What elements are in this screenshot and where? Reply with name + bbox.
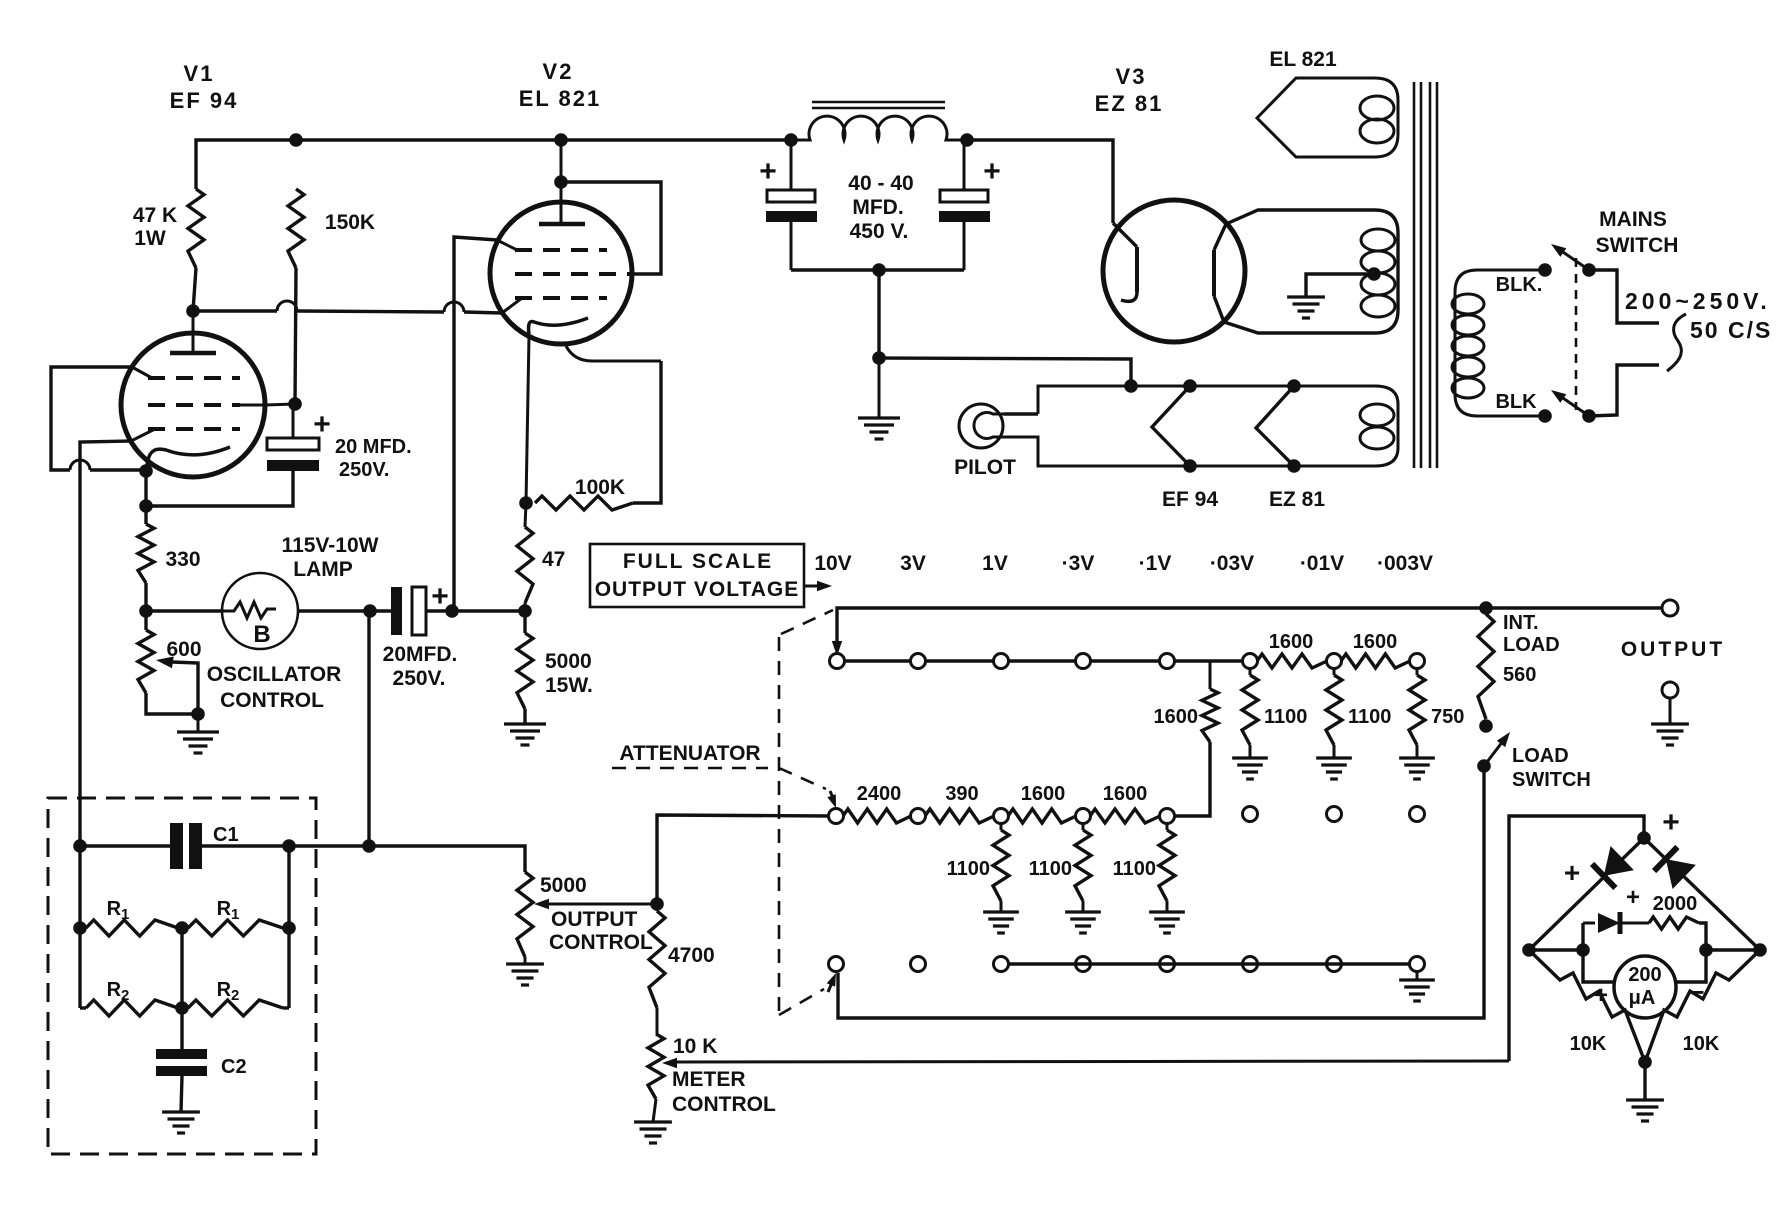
wire lamp to coupling cap (298, 609, 392, 612)
label - meter (1689, 977, 1704, 1007)
switch contact deck3-7 (1327, 957, 1342, 972)
node choke right junction (960, 133, 974, 147)
resistor 750 shunt (1409, 668, 1425, 758)
mains switch bottom arm (1551, 390, 1589, 416)
capacitor C1 (170, 823, 202, 869)
pilot lamp (959, 404, 1004, 448)
node choke left junction (784, 133, 798, 147)
resistor 1100 lower a (993, 823, 1009, 912)
switch contact deck3-3 (994, 957, 1009, 972)
resistor 1600 vertical (1174, 661, 1218, 816)
label OUTPUT oc (551, 908, 638, 931)
svg-text:10K: 10K (1683, 1033, 1720, 1055)
wire coupling to wien (367, 611, 370, 846)
resistor 390 (925, 809, 994, 823)
label CONTROL oc (549, 931, 653, 954)
resistor R2 left (80, 1000, 182, 1016)
resistor 4700 (649, 904, 665, 1034)
ground 1100 lower b (1065, 912, 1101, 933)
resistor 10K bridge right (1645, 950, 1760, 1062)
wire cathode to bypass cap (146, 471, 293, 506)
resistor 10K meter control (648, 1034, 664, 1122)
label EZ81 heater (1269, 488, 1325, 511)
switch contact deck2-2 (911, 809, 926, 824)
terminal OUTPUT (1662, 600, 1678, 616)
wire C1 to output control (289, 846, 525, 872)
V2 grid3 row (497, 240, 607, 250)
ground 5000 output control (506, 964, 544, 985)
svg-text:330: 330 (165, 548, 200, 571)
wire screen stub (265, 404, 295, 405)
wire bridge bottom to ground (1643, 1062, 1646, 1100)
label + bridge left (1564, 857, 1580, 888)
label PILOT (954, 456, 1016, 479)
node EF94 heater top (1183, 379, 1197, 393)
ground HT CT (1287, 297, 1325, 318)
wire attenuator top bus (837, 608, 1662, 648)
label + bridge top (1662, 806, 1680, 839)
label 1W (134, 227, 166, 250)
bridge edge top-right (1644, 838, 1760, 950)
svg-text:CONTROL: CONTROL (672, 1093, 776, 1116)
svg-text:1100: 1100 (1348, 706, 1391, 728)
label + cap right (983, 155, 1001, 188)
svg-text:450 V.: 450 V. (850, 220, 909, 243)
svg-text:250V.: 250V. (393, 667, 446, 690)
label 1100 lower c (1113, 858, 1156, 880)
wire bridge mid right (1706, 948, 1760, 951)
svg-text:INT.: INT. (1503, 612, 1539, 634)
tube V1 EF94 envelope (121, 333, 265, 477)
label V3 (1116, 64, 1147, 89)
svg-text:560: 560 (1503, 664, 1536, 686)
label 330 (165, 548, 200, 571)
wire 330 to lamp node (144, 583, 147, 611)
resistor 2400 (843, 809, 911, 823)
label BLK bottom (1495, 391, 1537, 413)
switch contact deck1-4 (1076, 654, 1091, 669)
label 1600 mid a (1021, 783, 1066, 805)
label 5000 oc (540, 874, 587, 897)
node inner right (1699, 943, 1713, 957)
label EF 94 (170, 88, 239, 113)
node cathode-bypass junction (139, 499, 153, 513)
label 115V-10W (282, 534, 379, 557)
node mains switch bottom left (1538, 409, 1552, 423)
svg-text:+: + (1662, 806, 1680, 839)
label 1600 top a (1269, 631, 1314, 653)
svg-text:+: + (983, 155, 1001, 188)
ground 1100 shunt b (1316, 758, 1352, 779)
svg-text:150K: 150K (325, 211, 375, 234)
resistor 1100 lower b (1075, 823, 1091, 912)
label 600 (166, 638, 201, 661)
V3 left diode (1113, 223, 1137, 301)
label + meter (1594, 982, 1608, 1009)
switch contact deck1-8 (1410, 654, 1425, 669)
label CONTROL mc (672, 1093, 776, 1116)
deck1 wiper arrow (832, 641, 842, 656)
wire deck1 bus (837, 659, 1243, 662)
resistor 10K bridge left (1529, 950, 1645, 1062)
node heater bus gnd tap (1124, 379, 1138, 393)
ground C2 (162, 1112, 200, 1133)
wire deck3 bus (1008, 962, 1410, 965)
capacitor 40MFD left (766, 140, 817, 270)
label V1 (184, 61, 215, 86)
svg-text:+: + (313, 408, 331, 441)
node C1 left (73, 839, 87, 853)
svg-text:EF 94: EF 94 (1162, 488, 1218, 511)
label SWITCH sw (1512, 769, 1591, 791)
svg-text:B: B (253, 621, 270, 648)
wire V2 g3 long vertical (454, 237, 497, 611)
transformer core (1414, 82, 1437, 468)
svg-text:EZ 81: EZ 81 (1269, 488, 1325, 511)
label .003V (1377, 552, 1433, 575)
EZ81 heater chevron (1256, 386, 1294, 466)
label R1 left (107, 898, 130, 923)
label BLK top (1496, 274, 1543, 296)
svg-text:5000: 5000 (540, 874, 587, 897)
node R1 right (282, 921, 296, 935)
winding heater 6.3V (1004, 386, 1398, 466)
label EL 821 (519, 86, 602, 111)
wire R2 to C2 (180, 1008, 183, 1049)
svg-text:μA: μA (1629, 987, 1656, 1009)
resistor 2000 (1649, 917, 1699, 929)
switch contact deck1-6 (1243, 654, 1258, 669)
svg-text:2000: 2000 (1653, 893, 1698, 915)
resistor 150K (288, 189, 304, 268)
node bridge top (1637, 831, 1651, 845)
node int-load top (1479, 601, 1493, 615)
label 40-40 (848, 172, 913, 195)
label 150K (325, 211, 375, 234)
label + bypass (313, 408, 331, 441)
resistor 1100 shunt b (1326, 668, 1342, 758)
resistor 1100 lower c (1159, 823, 1175, 912)
wire mains neutral (1589, 365, 1659, 416)
label V2 (543, 59, 574, 84)
winding HT secondary (1224, 210, 1398, 333)
V1 grid3 row (132, 367, 240, 378)
resistor 1600 mid b (1090, 809, 1160, 823)
wire caps bottom (791, 268, 964, 271)
resistor 47 (517, 527, 533, 603)
switch contact deck2-1 (829, 809, 844, 824)
node screen junction (288, 397, 302, 411)
svg-text:20MFD.: 20MFD. (383, 643, 458, 666)
switch contact deck3-1 (829, 957, 844, 972)
svg-text:OUTPUT: OUTPUT (1621, 638, 1725, 661)
node inner left (1576, 943, 1590, 957)
svg-text:1W: 1W (134, 227, 166, 250)
winding EL821 heater (1257, 78, 1398, 157)
wire CT down (877, 270, 880, 358)
wire HT CT to ground (1306, 274, 1374, 297)
svg-text:METER: METER (672, 1068, 746, 1091)
label B (253, 621, 270, 648)
svg-text:·1V: ·1V (1139, 552, 1172, 575)
svg-text:OUTPUT: OUTPUT (551, 908, 638, 931)
capacitor 20MFD 250V coupling (391, 587, 426, 635)
svg-text:C2: C2 (221, 1056, 247, 1078)
resistor 47K 1W (188, 189, 204, 268)
svg-text:1100: 1100 (1113, 858, 1156, 880)
switch contact deck1-7 (1327, 654, 1342, 669)
wire R1-R2 mid leg (180, 928, 183, 1008)
mains switch gang dashed link (1575, 258, 1578, 410)
switch contact deck2-4 (1076, 809, 1091, 824)
node 47-5000 junction (518, 604, 532, 618)
switch contact deck1-1 (830, 654, 845, 669)
svg-text:1600: 1600 (1103, 783, 1148, 805)
switch contact deck3-2 (911, 957, 926, 972)
node mains switch bottom right (1582, 409, 1596, 423)
switch contact deck3-6 (1243, 957, 1258, 972)
wire 47 bottom (524, 603, 527, 611)
V1 cathode (146, 447, 230, 470)
label .1V (1139, 552, 1172, 575)
node V1 plate junction (186, 304, 200, 318)
node 600 bottom junction (191, 707, 205, 721)
label R2 left (107, 979, 130, 1004)
ground oscillator control (177, 714, 219, 753)
node CT junction (872, 351, 886, 365)
label 1100 lower a (947, 858, 990, 880)
label + 2000 (1626, 884, 1640, 911)
V2 cathode (529, 318, 588, 334)
full scale arrow (804, 581, 832, 591)
label EL 821 winding (1269, 48, 1337, 71)
resistor 1600 mid a (1008, 809, 1076, 823)
resistor 330 (138, 524, 154, 583)
resistor 600 oscillator control (138, 611, 198, 714)
wire wien left leg (78, 846, 81, 928)
svg-text:390: 390 (945, 783, 978, 805)
label 10K bridge left (1570, 1033, 1607, 1055)
label 1V (982, 552, 1008, 575)
svg-text:+: + (1564, 857, 1580, 888)
label .01V (1300, 552, 1344, 575)
tube V3 EZ81 envelope (1103, 200, 1245, 342)
V2 grid2 row (515, 272, 630, 276)
label CONTROL (220, 689, 324, 712)
ground bridge (1626, 1100, 1664, 1121)
node bridge left (1522, 943, 1536, 957)
resistor 100K (535, 496, 633, 510)
svg-text:CONTROL: CONTROL (549, 931, 653, 954)
label OUTPUT VOLTAGE (595, 578, 800, 601)
choke core lines (812, 102, 945, 108)
label 47K (133, 204, 177, 227)
lamp B 115V-10W envelope (222, 573, 298, 649)
label 200-250V (1625, 288, 1771, 314)
svg-text:1100: 1100 (1029, 858, 1072, 880)
label 1600 top b (1353, 631, 1398, 653)
svg-text:ATTENUATOR: ATTENUATOR (619, 742, 760, 765)
ground CT (858, 358, 900, 439)
wire bridge mid left (1529, 948, 1583, 951)
switch contact deck2-3 (994, 809, 1009, 824)
attenuator gang dashed vertical (778, 637, 781, 1015)
svg-text:+: + (1626, 884, 1640, 911)
node EZ81 heater bottom (1287, 459, 1301, 473)
svg-text:V3: V3 (1116, 64, 1147, 89)
switch contact deck2-5 (1160, 809, 1175, 824)
svg-text:BLK.: BLK. (1496, 274, 1543, 296)
label FULL SCALE (623, 550, 773, 573)
node 4700 top (650, 897, 664, 911)
ground 750 shunt (1399, 758, 1435, 779)
wire 150K bottom (295, 268, 296, 404)
full scale output voltage box (590, 544, 804, 607)
capacitor 40MFD right (939, 140, 990, 270)
node mains switch top left (1538, 263, 1552, 277)
label 1100 lower b (1029, 858, 1072, 880)
label C1 (213, 824, 239, 846)
wire V2 cathode down (526, 336, 529, 503)
svg-text:47 K: 47 K (133, 204, 177, 227)
svg-text:1600: 1600 (1021, 783, 1066, 805)
svg-text:EZ 81: EZ 81 (1095, 91, 1164, 116)
attenuator gang dashed top (781, 610, 833, 634)
svg-text:V1: V1 (184, 61, 215, 86)
switch contact deck1-3 (994, 654, 1009, 669)
label 2000 (1653, 893, 1698, 915)
node bridge right (1753, 943, 1767, 957)
node C1 right (282, 839, 296, 853)
terminal OUTPUT ground (1651, 682, 1689, 745)
label + cap left (759, 155, 777, 188)
bridge inner rect (1583, 923, 1706, 982)
diode bridge TR (1654, 847, 1696, 889)
label MFD (852, 196, 903, 219)
wire 47K bottom to plate node (193, 268, 196, 311)
V2 cathode right hook (566, 346, 661, 361)
node EF94 heater bottom (1183, 459, 1197, 473)
svg-text:OUTPUT VOLTAGE: OUTPUT VOLTAGE (595, 578, 800, 601)
svg-text:250V.: 250V. (339, 459, 389, 481)
label R1 right (217, 898, 240, 923)
switch contact deck3-4 (1076, 957, 1091, 972)
wire output terminal lead (0, 0, 1, 1)
wire C1 right (202, 844, 289, 847)
load switch (1477, 732, 1510, 773)
filter choke coil (791, 116, 967, 140)
svg-text:1100: 1100 (947, 858, 990, 880)
node V2 screen tap (554, 175, 568, 189)
pot 600 wiper arrow (156, 657, 198, 715)
label OUTPUT (1621, 638, 1725, 661)
wire pilot top lead (1004, 412, 1038, 415)
label EZ81 (1095, 91, 1164, 116)
label 50C/S (1690, 317, 1772, 343)
wire CT to heater bus (879, 358, 1131, 386)
svg-text:EL 821: EL 821 (1269, 48, 1337, 71)
svg-text:47: 47 (542, 548, 565, 571)
svg-text:+: + (759, 155, 777, 188)
wire coupling cap right (426, 609, 525, 612)
wire C2 to ground (181, 1076, 182, 1112)
capacitor 20MFD 250V bypass (267, 404, 319, 471)
resistor R1 right (182, 920, 289, 936)
label 250V bypass (339, 459, 389, 481)
svg-text:1V: 1V (982, 552, 1008, 575)
label .3V (1062, 552, 1095, 575)
wire bus to V3 (967, 140, 1113, 223)
svg-text:MFD.: MFD. (852, 196, 903, 219)
svg-text:·003V: ·003V (1377, 552, 1433, 575)
svg-text:750: 750 (1431, 706, 1464, 728)
label 47 (542, 548, 565, 571)
svg-text:1600: 1600 (1269, 631, 1314, 653)
label LAMP (293, 558, 353, 581)
node lamp-left junction (139, 604, 153, 618)
V2 anode top cap (539, 182, 585, 224)
lamp filament (223, 602, 276, 618)
wien dashed box (48, 798, 316, 1154)
label EF94 heater (1162, 488, 1218, 511)
node caps bottom junction (872, 263, 886, 277)
resistor 1100 shunt a (1242, 668, 1258, 758)
svg-text:3V: 3V (900, 552, 926, 575)
svg-text:1100: 1100 (1264, 706, 1307, 728)
node R1 left (73, 921, 87, 935)
svg-text:·01V: ·01V (1300, 552, 1344, 575)
label 3V (900, 552, 926, 575)
svg-text:·3V: ·3V (1062, 552, 1095, 575)
label INT. (1503, 612, 1539, 634)
wire V1 grid line to V2 with hopovers (193, 301, 502, 313)
label .03V (1210, 552, 1254, 575)
svg-text:10 K: 10 K (673, 1035, 717, 1058)
V3 right diode (1214, 224, 1226, 322)
svg-text:10K: 10K (1570, 1033, 1607, 1055)
ground 5000 15W (504, 724, 546, 745)
resistor R2 right (182, 1000, 289, 1016)
label 250V coupling (393, 667, 446, 690)
tube V2 EL821 envelope (490, 202, 632, 344)
switch contact deck3-8 (1410, 957, 1425, 972)
svg-text:200: 200 (1628, 964, 1661, 986)
EF94 heater chevron (1152, 386, 1190, 466)
svg-text:PILOT: PILOT (954, 456, 1016, 479)
svg-text:4700: 4700 (668, 944, 715, 967)
svg-text:15W.: 15W. (545, 674, 593, 697)
svg-text:10V: 10V (814, 552, 851, 575)
node mains switch top right (1582, 263, 1596, 277)
resistor 1600 top a (1257, 654, 1327, 668)
resistor 5000 output control (517, 872, 533, 964)
pot 10K wiper (662, 1058, 1509, 1068)
label ATTENUATOR (619, 742, 760, 765)
ground deck3 end (1399, 971, 1435, 1001)
label 100K (575, 476, 625, 499)
svg-text:50 C/S: 50 C/S (1690, 317, 1772, 343)
node V2-g3 junction (445, 604, 459, 618)
wire cathode chain down (144, 506, 147, 524)
wire V1 g3 to cathode tie (51, 367, 146, 470)
pot 5000 wiper (534, 899, 657, 909)
wire output-control to deck2 (657, 815, 829, 904)
svg-text:OSCILLATOR: OSCILLATOR (207, 663, 342, 686)
ground 10K mc (634, 1122, 672, 1143)
label 1100 shunt a (1264, 706, 1307, 728)
node bridge bottom (1638, 1055, 1652, 1069)
node output tap (362, 839, 376, 853)
